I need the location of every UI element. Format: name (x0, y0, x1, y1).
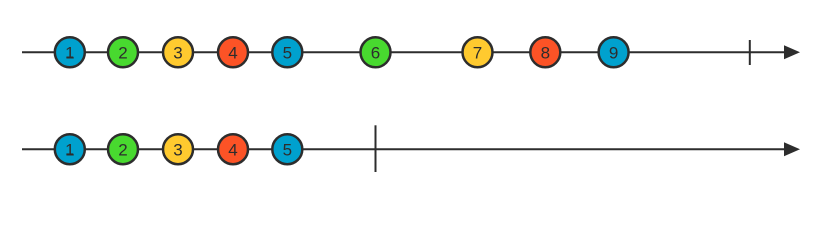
node 6 (top, green) (361, 37, 391, 67)
node 2 (top, green) (108, 37, 138, 67)
node 4 (bottom, red) (218, 134, 248, 164)
svg-text:1: 1 (65, 140, 74, 159)
svg-text:7: 7 (473, 43, 482, 62)
node 2 (bottom, green) (108, 134, 138, 164)
node 3 (top, yellow) (163, 37, 193, 67)
node 3 (bottom, yellow) (163, 134, 193, 164)
node: bottom arrowhead (784, 142, 800, 156)
svg-text:9: 9 (609, 43, 618, 62)
node: top complete tick (749, 40, 751, 65)
svg-text:4: 4 (228, 43, 237, 62)
svg-text:4: 4 (228, 140, 237, 159)
svg-text:3: 3 (173, 43, 182, 62)
svg-text:8: 8 (541, 43, 550, 62)
node 1 (top, blue) (55, 37, 85, 67)
wire: top timeline (22, 51, 787, 53)
svg-text:5: 5 (283, 140, 292, 159)
node 5 (top, blue) (272, 37, 302, 67)
node 1 (bottom, blue) (55, 134, 85, 164)
svg-text:2: 2 (118, 140, 127, 159)
svg-text:6: 6 (371, 43, 380, 62)
node 4 (top, red) (218, 37, 248, 67)
svg-text:2: 2 (118, 43, 127, 62)
node 8 (top, red) (530, 37, 560, 67)
svg-text:1: 1 (65, 43, 74, 62)
svg-text:5: 5 (283, 43, 292, 62)
node: bottom complete tick (375, 125, 377, 172)
node 5 (bottom, blue) (272, 134, 302, 164)
node: top arrowhead (784, 45, 800, 59)
wire: bottom timeline (22, 148, 787, 150)
node 7 (top, yellow) (463, 37, 493, 67)
svg-text:3: 3 (173, 140, 182, 159)
node 9 (top, blue) (599, 37, 629, 67)
